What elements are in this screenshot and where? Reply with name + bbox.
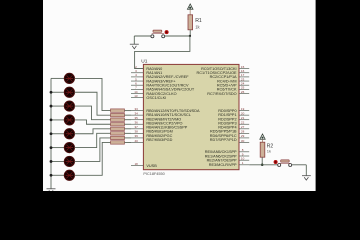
ground (top left) [130,44,139,49]
wire resistor R3 to U1 pin 33 [125,110,132,112]
svg-text:29: 29 [241,134,245,138]
black bar bottom [0,191,360,202]
push button SW1 [151,30,169,38]
svg-text:27: 27 [241,125,245,129]
wire bus to LED D7 [51,160,64,162]
svg-text:19: 19 [241,107,245,111]
svg-text:33: 33 [135,107,139,111]
resistor R7 (LED series) [111,127,125,130]
svg-text:13: 13 [134,94,138,98]
wire resistor R8 to U1 pin 38 [125,132,132,134]
resistor R4 (LED series) [111,113,125,116]
LED D5 [64,129,74,139]
wire bus to LED D3 [51,105,64,107]
svg-text:22: 22 [241,121,245,125]
svg-text:20: 20 [241,111,245,115]
wire bus to LED D8 [51,174,64,176]
wire down to ground right [305,165,307,176]
svg-text:VUSB: VUSB [146,164,157,168]
wire gnd-stem to button SW1 left pin [134,35,151,37]
svg-text:39: 39 [135,134,139,138]
wire LED D5 to resistor R7 [75,129,111,134]
svg-text:RD7/SPP7/P1D: RD7/SPP7/P1D [210,138,237,142]
U1 right pins RE0-RE3 stubs and labels [239,152,249,165]
svg-text:21: 21 [241,116,245,120]
LED D1 [64,73,74,83]
wire resistor R10 to U1 pin 40 [125,141,132,143]
resistor R5 (LED series) [111,118,125,121]
junction on bus row 3 [50,105,53,108]
power symbol VCC top [187,4,193,15]
resistor R9 (LED series) [111,136,125,139]
LED D3 [64,101,74,111]
svg-text:18: 18 [135,162,139,166]
wire LED D4 to resistor R6 [75,120,111,124]
power symbol VCC right [260,134,265,142]
push button SW2 [274,160,292,167]
resistor R1 [188,15,202,30]
resistor R3 (LED series) [111,109,125,112]
U1 left pin VUSB (18) [131,165,143,167]
LED D2 [64,87,74,97]
svg-text:1k: 1k [267,149,271,154]
svg-text:40: 40 [135,139,139,143]
wire LED D2 to resistor R4 [75,92,111,115]
wire resistor R7 to U1 pin 37 [125,128,132,130]
ground (right) [302,176,311,180]
wire R1 bottom to node A [189,30,191,36]
junction on bus row 2 [50,91,53,94]
LED D6 [64,143,74,153]
wire resistor R6 to U1 pin 36 [125,123,132,125]
junction on bus row 6 [50,146,53,149]
svg-text:RE2/AN7/OESPP: RE2/AN7/OESPP [207,158,237,162]
LED D4 [64,115,74,125]
resistor R10 (LED series) [111,141,125,144]
wire LED D1 to resistor R3 [75,78,111,110]
wire LED D6 to resistor R8 [75,133,111,147]
ground (LED bus bottom) [47,189,56,193]
node A junction dot [189,35,191,37]
LED supply bus wire [50,78,52,188]
wire bus to LED D6 [51,147,64,149]
LED D7 [64,156,74,166]
black bar right [316,0,360,202]
svg-text:28: 28 [241,130,245,134]
svg-text:36: 36 [135,121,139,125]
wire R2 bottom to node MCLR [261,157,263,165]
wire bus to LED D5 [51,133,64,135]
wire LED D7 to resistor R9 [75,138,111,162]
wire button SW2 right pin to corner [292,164,307,166]
U1 right pins RD0-RD7 stubs and labels [239,111,249,143]
wire bus to LED D2 [51,91,64,93]
svg-text:37: 37 [135,125,139,129]
svg-text:PIC18F4550: PIC18F4550 [143,172,164,176]
svg-text:RC7/RX/DT/SDO: RC7/RX/DT/SDO [207,92,236,96]
LED D8 [64,170,74,180]
wire button SW1 right pin to node A [164,35,190,37]
wire bus to LED D1 [51,77,64,79]
junction on bus row 4 [50,119,53,122]
junction on bus row 7 [50,160,53,163]
svg-text:10: 10 [241,157,245,161]
svg-text:34: 34 [135,111,139,115]
svg-text:RB7/KBI3/PGD: RB7/KBI3/PGD [146,138,172,142]
resistor R8 (LED series) [111,132,125,135]
resistor R2 [260,142,273,157]
svg-text:38: 38 [135,130,139,134]
U1 left pins RA0-RA6/OSC1 stubs and labels [131,69,143,98]
wire resistor R9 to U1 pin 39 [125,137,132,139]
wire resistor R4 to U1 pin 34 [125,114,132,116]
svg-text:26: 26 [241,90,245,94]
black bar left [0,0,43,202]
junction on bus row 5 [50,132,53,135]
svg-text:U1: U1 [141,59,147,65]
wire bus to LED D4 [51,119,64,121]
op U1 PIC18F4550 body [143,64,239,169]
resistor R6 (LED series) [111,123,125,126]
wire resistor R5 to U1 pin 35 [125,119,132,121]
wire LED D8 to resistor R10 [75,142,111,175]
wire node A to U1 pin 2 (RA0) [135,36,190,69]
svg-text:OSC1/CLKI: OSC1/CLKI [146,96,166,100]
svg-text:30: 30 [241,139,245,143]
U1 right pins RC0-RC7 stubs and labels [239,69,249,94]
junction on bus row 8 [50,174,53,177]
wire U1 pin 1 to button SW2 left pin [249,164,277,166]
svg-text:35: 35 [135,116,139,120]
wire LED D3 to resistor R5 [75,106,111,120]
U1 left pins RB0-RB7 stubs and labels [131,111,143,143]
wire button-left down to ground [133,36,135,44]
svg-text:RE3/MCLR/VPP: RE3/MCLR/VPP [209,163,237,167]
node MCLR junction dot [261,164,264,167]
svg-text:R1: R1 [195,18,202,24]
